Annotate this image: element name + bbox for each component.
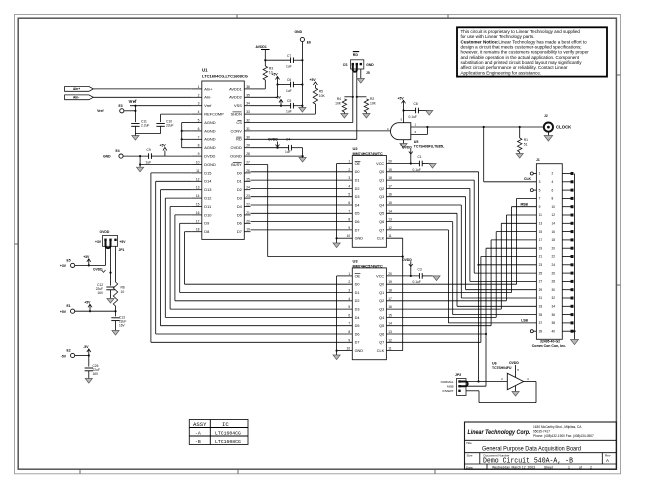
svg-text:LTC1604CG,LTC1608CG: LTC1604CG,LTC1608CG xyxy=(202,73,248,78)
svg-text:AGND: AGND xyxy=(204,120,215,125)
svg-text:20: 20 xyxy=(246,219,250,223)
svg-text:D3: D3 xyxy=(355,195,360,199)
svg-text:C6: C6 xyxy=(287,78,291,82)
svg-text:D8: D8 xyxy=(204,229,209,234)
svg-text:Phone: (408)432-1900 Fax: (408: Phone: (408)432-1900 Fax: (408)434-0507 xyxy=(533,434,594,438)
svg-text:23: 23 xyxy=(539,263,543,267)
svg-text:Q4: Q4 xyxy=(379,316,384,320)
svg-text:Q1: Q1 xyxy=(379,291,384,295)
svg-text:21: 21 xyxy=(246,211,250,215)
svg-text:11: 11 xyxy=(388,234,392,238)
svg-text:23: 23 xyxy=(246,194,250,198)
svg-text:Q0: Q0 xyxy=(379,170,384,174)
svg-text:D1: D1 xyxy=(237,179,242,184)
svg-text:CLK: CLK xyxy=(524,177,532,181)
svg-text:E1: E1 xyxy=(67,304,71,308)
svg-text:E5: E5 xyxy=(67,258,71,262)
svg-text:16V: 16V xyxy=(97,291,104,295)
svg-text:Vref: Vref xyxy=(204,103,212,108)
svg-text:TC7SH04FU: TC7SH04FU xyxy=(492,366,512,370)
svg-text:C3: C3 xyxy=(418,267,422,271)
svg-text:RD: RD xyxy=(353,53,359,57)
svg-text:D1: D1 xyxy=(355,179,360,183)
svg-text:OE: OE xyxy=(355,162,361,166)
svg-text:AVDD1: AVDD1 xyxy=(256,45,267,49)
svg-text:9: 9 xyxy=(198,152,200,156)
svg-text:30: 30 xyxy=(552,288,556,292)
svg-text:Rev: Rev xyxy=(605,454,611,458)
svg-text:17: 17 xyxy=(539,238,543,242)
svg-text:39: 39 xyxy=(539,329,543,333)
svg-text:GND: GND xyxy=(103,155,111,159)
svg-text:Demo Circuit 540A-A, -B: Demo Circuit 540A-A, -B xyxy=(483,457,574,465)
svg-text:D3: D3 xyxy=(237,196,242,201)
svg-text:6: 6 xyxy=(348,313,350,317)
svg-text:Q4: Q4 xyxy=(379,203,384,207)
svg-text:+5V: +5V xyxy=(60,310,67,314)
svg-text:22uF: 22uF xyxy=(166,124,174,128)
svg-text:GND: GND xyxy=(295,30,303,34)
svg-text:17: 17 xyxy=(388,184,392,188)
svg-text:18: 18 xyxy=(552,238,556,242)
svg-text:U5: U5 xyxy=(414,140,419,144)
svg-text:1630 McCarthy Blvd., Milpitas,: 1630 McCarthy Blvd., Milpitas, CA xyxy=(533,425,582,429)
svg-text:+5V: +5V xyxy=(84,301,91,305)
svg-text:-5V: -5V xyxy=(61,354,67,358)
svg-text:D11: D11 xyxy=(204,204,211,209)
svg-text:0.1uF: 0.1uF xyxy=(409,115,417,119)
svg-text:+5V: +5V xyxy=(310,78,317,82)
svg-text:GND: GND xyxy=(355,237,364,241)
svg-text:D5: D5 xyxy=(355,212,360,216)
svg-text:+3V: +3V xyxy=(95,240,102,244)
svg-text:D3: D3 xyxy=(355,308,360,312)
svg-text:VSS: VSS xyxy=(234,103,242,108)
svg-text:Q2: Q2 xyxy=(379,299,384,303)
svg-text:CS: CS xyxy=(236,120,242,125)
svg-text:CONV: CONV xyxy=(231,128,243,133)
svg-text:11: 11 xyxy=(388,347,392,351)
svg-text:Q3: Q3 xyxy=(379,308,384,312)
svg-text:19: 19 xyxy=(246,228,250,232)
svg-text:D5: D5 xyxy=(355,324,360,328)
svg-text:BUSY: BUSY xyxy=(231,162,242,167)
svg-text:DVDD: DVDD xyxy=(204,154,215,159)
svg-text:VCC: VCC xyxy=(376,274,384,278)
svg-text:9: 9 xyxy=(539,205,541,209)
svg-text:30: 30 xyxy=(246,135,250,139)
svg-text:37: 37 xyxy=(539,321,543,325)
svg-text:8: 8 xyxy=(552,197,554,201)
svg-text:4: 4 xyxy=(348,297,350,301)
svg-text:Q7: Q7 xyxy=(379,341,384,345)
svg-text:-5V: -5V xyxy=(83,345,89,349)
svg-text:Q5: Q5 xyxy=(379,324,384,328)
svg-text:1: 1 xyxy=(348,272,350,276)
svg-text:AGND: AGND xyxy=(204,128,215,133)
svg-text:D7: D7 xyxy=(237,229,242,234)
svg-text:C8: C8 xyxy=(414,102,418,106)
svg-text:14: 14 xyxy=(388,209,392,213)
svg-text:10K: 10K xyxy=(319,94,326,98)
svg-text:35: 35 xyxy=(246,93,250,97)
svg-text:D6: D6 xyxy=(355,332,360,336)
svg-text:31: 31 xyxy=(539,296,543,300)
svg-text:OVDD: OVDD xyxy=(100,230,110,234)
svg-text:OGND: OGND xyxy=(230,154,242,159)
svg-text:10: 10 xyxy=(552,205,556,209)
svg-text:AVDD2: AVDD2 xyxy=(229,95,242,100)
svg-text:Q3: Q3 xyxy=(379,195,384,199)
svg-text:D4: D4 xyxy=(237,204,243,209)
svg-text:29: 29 xyxy=(246,144,250,148)
svg-text:ASSY: ASSY xyxy=(193,421,207,428)
svg-text:Q1: Q1 xyxy=(379,179,384,183)
svg-text:AGND: AGND xyxy=(204,145,215,150)
svg-text:2: 2 xyxy=(590,466,592,470)
svg-text:2: 2 xyxy=(552,172,554,176)
svg-text:+5V: +5V xyxy=(398,97,405,101)
svg-text:10K: 10K xyxy=(335,102,342,106)
svg-text:J1: J1 xyxy=(536,158,540,162)
svg-text:E2: E2 xyxy=(67,348,71,352)
svg-text:AIn+: AIn+ xyxy=(73,87,80,91)
svg-text:7: 7 xyxy=(198,135,200,139)
svg-text:C5: C5 xyxy=(287,99,291,103)
svg-text:25: 25 xyxy=(246,177,250,181)
svg-text:+3V: +3V xyxy=(83,255,90,259)
svg-text:+5V: +5V xyxy=(160,144,167,148)
svg-text:27: 27 xyxy=(246,161,250,165)
svg-text:U6: U6 xyxy=(492,361,497,365)
svg-text:Linear Technology Corp.: Linear Technology Corp. xyxy=(468,430,531,436)
svg-text:D6: D6 xyxy=(237,221,242,226)
svg-text:4: 4 xyxy=(348,184,350,188)
svg-text:24: 24 xyxy=(246,186,250,190)
svg-text:2: 2 xyxy=(348,280,350,284)
svg-text:D2: D2 xyxy=(237,187,242,192)
svg-text:OVDD: OVDD xyxy=(268,138,278,142)
svg-text:32: 32 xyxy=(552,296,556,300)
svg-text:CS: CS xyxy=(343,63,348,67)
svg-text:Applications Engineering for a: Applications Engineering for assistance. xyxy=(461,70,542,75)
svg-text:Sheet: Sheet xyxy=(544,466,553,470)
svg-text:D14: D14 xyxy=(204,179,212,184)
svg-text:SHDN: SHDN xyxy=(231,112,242,117)
svg-text:AIn+: AIn+ xyxy=(204,86,213,91)
svg-text:Wednesday, March 12, 2003: Wednesday, March 12, 2003 xyxy=(492,466,535,470)
svg-text:8: 8 xyxy=(348,218,350,222)
svg-text:1uF: 1uF xyxy=(146,161,152,165)
svg-text:Date:: Date: xyxy=(466,465,474,469)
svg-text:C1: C1 xyxy=(418,155,422,159)
svg-text:12: 12 xyxy=(388,226,392,230)
svg-text:51: 51 xyxy=(524,142,528,146)
svg-text:2: 2 xyxy=(348,168,350,172)
svg-text:2.2uF: 2.2uF xyxy=(141,124,149,128)
svg-text:0.1uF: 0.1uF xyxy=(413,168,421,172)
svg-text:AVDD1: AVDD1 xyxy=(229,86,242,91)
svg-text:CLOCK: CLOCK xyxy=(556,125,572,130)
svg-text:7: 7 xyxy=(348,322,350,326)
svg-text:1uF: 1uF xyxy=(286,65,292,69)
svg-text:OVDD: OVDD xyxy=(509,361,519,365)
svg-text:5: 5 xyxy=(348,193,350,197)
svg-text:TC7SH08FU,TE85L: TC7SH08FU,TE85L xyxy=(414,145,445,149)
svg-text:6: 6 xyxy=(198,127,200,131)
svg-text:OE: OE xyxy=(355,274,361,278)
svg-text:IC: IC xyxy=(222,421,229,428)
svg-text:13: 13 xyxy=(196,186,200,190)
svg-text:-5V: -5V xyxy=(276,96,282,100)
svg-text:2: 2 xyxy=(198,93,200,97)
svg-text:8: 8 xyxy=(348,330,350,334)
svg-text:20: 20 xyxy=(388,272,392,276)
svg-text:NORMAL: NORMAL xyxy=(441,380,454,384)
svg-text:13: 13 xyxy=(388,330,392,334)
svg-text:D1: D1 xyxy=(355,291,360,295)
svg-text:4: 4 xyxy=(198,110,200,114)
svg-text:D0: D0 xyxy=(355,283,360,287)
svg-text:16V: 16V xyxy=(93,372,100,376)
svg-text:16: 16 xyxy=(552,230,556,234)
svg-text:1uF: 1uF xyxy=(286,110,292,114)
svg-text:1: 1 xyxy=(348,160,350,164)
svg-text:Q7: Q7 xyxy=(379,228,384,232)
svg-text:10: 10 xyxy=(347,347,351,351)
svg-text:1uF: 1uF xyxy=(285,150,291,154)
svg-text:5: 5 xyxy=(348,305,350,309)
svg-text:D5: D5 xyxy=(237,212,242,217)
svg-text:36: 36 xyxy=(246,85,250,89)
svg-text:E3: E3 xyxy=(119,104,123,108)
svg-text:Size: Size xyxy=(467,454,473,458)
svg-text:40: 40 xyxy=(552,329,556,333)
svg-text:D12: D12 xyxy=(204,196,211,201)
svg-text:MSB: MSB xyxy=(520,202,528,206)
svg-text:MSB: MSB xyxy=(447,385,454,389)
svg-text:33: 33 xyxy=(246,110,250,114)
svg-text:9: 9 xyxy=(348,338,350,342)
svg-text:Vref: Vref xyxy=(129,99,138,104)
svg-text:11: 11 xyxy=(196,169,200,173)
svg-text:27: 27 xyxy=(539,280,543,284)
svg-text:D0: D0 xyxy=(355,170,360,174)
svg-text:9: 9 xyxy=(348,226,350,230)
svg-text:E6: E6 xyxy=(307,41,311,45)
svg-text:D9: D9 xyxy=(204,221,209,226)
svg-text:0.1uF: 0.1uF xyxy=(413,280,421,284)
svg-text:10: 10 xyxy=(196,161,200,165)
svg-text:AIn-: AIn- xyxy=(204,95,212,100)
svg-text:17: 17 xyxy=(388,297,392,301)
svg-text:VCC: VCC xyxy=(376,162,384,166)
svg-text:E4: E4 xyxy=(116,149,120,153)
svg-text:Q0: Q0 xyxy=(379,283,384,287)
svg-text:D6: D6 xyxy=(355,220,360,224)
svg-text:J2: J2 xyxy=(544,114,548,118)
svg-text:+3V: +3V xyxy=(60,264,67,268)
svg-text:95035-7417: 95035-7417 xyxy=(533,429,550,433)
svg-text:31: 31 xyxy=(246,127,250,131)
svg-text:C9: C9 xyxy=(147,148,151,152)
svg-text:General Purpose Data Acquisiti: General Purpose Data Acquisition Board xyxy=(482,446,581,453)
svg-text:D7: D7 xyxy=(355,228,360,232)
svg-text:4: 4 xyxy=(552,180,554,184)
svg-text:1: 1 xyxy=(198,85,200,89)
svg-text:15: 15 xyxy=(539,230,543,234)
svg-text:REFCOMP: REFCOMP xyxy=(204,112,224,117)
svg-text:32: 32 xyxy=(246,119,250,123)
svg-text:Q2: Q2 xyxy=(379,187,384,191)
svg-text:CLK: CLK xyxy=(377,237,385,241)
svg-text:D10: D10 xyxy=(204,212,212,217)
svg-text:D7: D7 xyxy=(355,341,360,345)
svg-text:20: 20 xyxy=(388,160,392,164)
svg-text:28: 28 xyxy=(246,152,250,156)
svg-text:Vref: Vref xyxy=(97,109,104,113)
svg-text:12: 12 xyxy=(388,338,392,342)
svg-text:10: 10 xyxy=(121,290,125,294)
svg-text:AIn-: AIn- xyxy=(73,96,79,100)
svg-text:C4: C4 xyxy=(286,138,290,142)
svg-text:Comm Con Con, Inc.: Comm Con Con, Inc. xyxy=(532,344,566,348)
svg-text:14: 14 xyxy=(388,322,392,326)
svg-text:10K: 10K xyxy=(370,102,377,106)
svg-text:MM74HC574WTC: MM74HC574WTC xyxy=(353,265,383,269)
svg-text:7: 7 xyxy=(348,209,350,213)
svg-text:28: 28 xyxy=(552,280,556,284)
svg-text:7: 7 xyxy=(539,197,541,201)
svg-text:34: 34 xyxy=(552,305,556,309)
svg-text:14: 14 xyxy=(552,222,556,226)
svg-text:U3: U3 xyxy=(353,259,359,264)
svg-text:15: 15 xyxy=(388,201,392,205)
svg-text:D13: D13 xyxy=(204,187,211,192)
svg-text:26: 26 xyxy=(246,169,250,173)
svg-text:U1: U1 xyxy=(202,68,208,73)
svg-text:20: 20 xyxy=(552,246,556,250)
svg-text:JP2: JP2 xyxy=(455,373,461,377)
svg-text:D2: D2 xyxy=(355,299,360,303)
svg-text:16: 16 xyxy=(388,305,392,309)
svg-text:11: 11 xyxy=(539,213,543,217)
svg-text:18: 18 xyxy=(388,289,392,293)
svg-text:35: 35 xyxy=(539,313,543,317)
svg-text:5: 5 xyxy=(539,188,541,192)
svg-text:26: 26 xyxy=(552,271,556,275)
svg-text:D15: D15 xyxy=(204,170,211,175)
svg-text:3: 3 xyxy=(348,176,350,180)
svg-text:16: 16 xyxy=(388,193,392,197)
svg-text:29: 29 xyxy=(539,288,543,292)
svg-text:of: of xyxy=(579,466,582,470)
svg-text:MM74HC574WTC: MM74HC574WTC xyxy=(353,152,383,156)
svg-text:1: 1 xyxy=(568,466,570,470)
svg-text:3: 3 xyxy=(539,180,541,184)
svg-text:Q5: Q5 xyxy=(379,212,384,216)
svg-text:RD: RD xyxy=(236,137,242,142)
svg-text:U2: U2 xyxy=(353,146,359,151)
svg-text:-A: -A xyxy=(195,430,201,436)
svg-text:1uF: 1uF xyxy=(286,89,292,93)
svg-text:13: 13 xyxy=(388,218,392,222)
svg-text:19: 19 xyxy=(539,246,543,250)
svg-text:13: 13 xyxy=(539,222,543,226)
svg-text:6: 6 xyxy=(552,188,554,192)
svg-text:Q6: Q6 xyxy=(379,332,384,336)
svg-text:JP1: JP1 xyxy=(119,248,125,252)
svg-text:24: 24 xyxy=(552,263,556,267)
svg-text:INVERT: INVERT xyxy=(443,389,454,393)
svg-text:D0: D0 xyxy=(237,170,243,175)
svg-text:+5V: +5V xyxy=(120,240,127,244)
svg-text:17: 17 xyxy=(196,219,200,223)
svg-text:+5V: +5V xyxy=(272,73,279,77)
svg-text:LTC1608CG: LTC1608CG xyxy=(215,439,241,445)
svg-text:10: 10 xyxy=(347,234,351,238)
svg-text:-B: -B xyxy=(195,439,201,445)
svg-text:15: 15 xyxy=(196,203,200,207)
svg-text:14: 14 xyxy=(196,194,200,198)
svg-text:33: 33 xyxy=(539,305,543,309)
svg-text:8: 8 xyxy=(198,144,200,148)
svg-text:1: 1 xyxy=(539,172,541,176)
svg-text:19: 19 xyxy=(388,280,392,284)
svg-text:DGND: DGND xyxy=(204,162,216,167)
svg-text:D4: D4 xyxy=(355,316,360,320)
svg-text:D2: D2 xyxy=(355,187,360,191)
svg-text:12: 12 xyxy=(196,177,200,181)
svg-text:OVDD: OVDD xyxy=(93,267,103,271)
svg-text:Q6: Q6 xyxy=(379,220,384,224)
svg-text:D4: D4 xyxy=(355,203,360,207)
svg-text:C7: C7 xyxy=(287,54,291,58)
svg-text:3: 3 xyxy=(348,289,350,293)
svg-text:18: 18 xyxy=(388,176,392,180)
svg-text:AGND: AGND xyxy=(204,137,215,142)
svg-text:36: 36 xyxy=(552,313,556,317)
svg-text:Title: Title xyxy=(466,441,472,445)
svg-text:34: 34 xyxy=(246,102,250,106)
svg-text:6: 6 xyxy=(348,201,350,205)
svg-text:15: 15 xyxy=(388,313,392,317)
svg-text:22: 22 xyxy=(552,255,556,259)
svg-text:LSB: LSB xyxy=(521,319,528,323)
svg-text:3: 3 xyxy=(198,102,200,106)
svg-text:18: 18 xyxy=(196,228,200,232)
svg-text:A: A xyxy=(606,458,609,463)
svg-text:J5: J5 xyxy=(366,71,370,75)
svg-text:21: 21 xyxy=(539,255,543,259)
svg-text:LTC1604CG: LTC1604CG xyxy=(215,430,241,436)
svg-text:38: 38 xyxy=(552,321,556,325)
svg-text:16: 16 xyxy=(196,211,200,215)
svg-text:5: 5 xyxy=(198,119,200,123)
svg-text:22: 22 xyxy=(246,203,250,207)
svg-text:16V: 16V xyxy=(119,324,126,328)
svg-text:12: 12 xyxy=(552,213,556,217)
svg-text:25: 25 xyxy=(539,271,543,275)
svg-text:GND: GND xyxy=(366,63,374,67)
svg-text:OVDD: OVDD xyxy=(231,145,242,150)
svg-text:19: 19 xyxy=(388,168,392,172)
svg-text:GND: GND xyxy=(355,349,364,353)
svg-text:CLK: CLK xyxy=(377,349,385,353)
